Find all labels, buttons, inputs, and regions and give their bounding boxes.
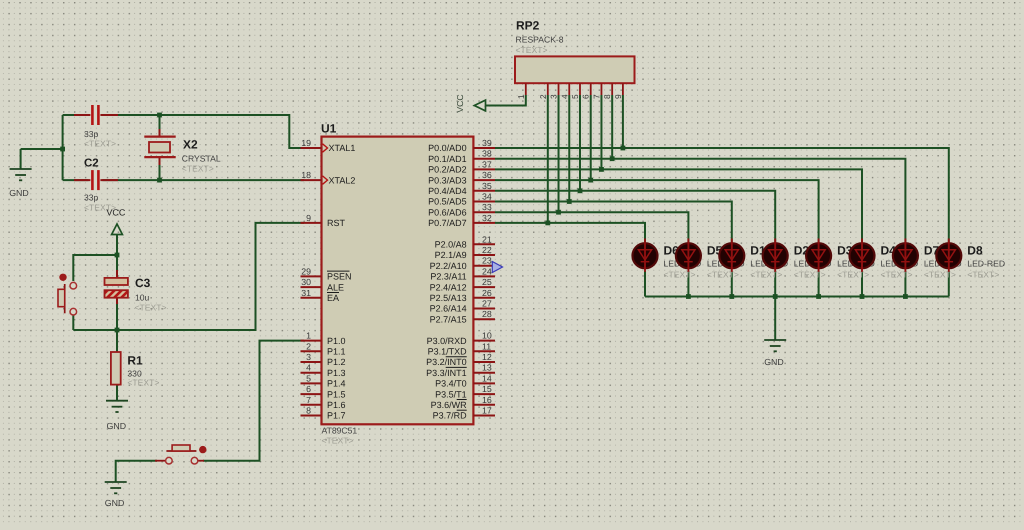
svg-text:P1.5: P1.5: [327, 389, 346, 399]
pin P2.4/A12 (25) right stub: [473, 286, 495, 288]
pin P0.4/AD4 (35) right stub: [473, 190, 495, 192]
wire: GND1 to capacitor column: [21, 148, 63, 150]
svg-text:P0.1/AD1: P0.1/AD1: [428, 154, 467, 164]
push button (vertical, reset): [64, 284, 66, 313]
pin EA (31) left stub: [301, 297, 322, 299]
overline PSEN: [327, 270, 350, 272]
svg-text:RP2: RP2: [516, 19, 540, 33]
svg-text:38: 38: [482, 149, 492, 159]
wire: bottom cap row to XTAL2: [63, 179, 304, 181]
pin P2.5/A13 (26) right stub: [473, 297, 495, 299]
svg-text:35: 35: [482, 181, 492, 191]
svg-text:P3.7/RD: P3.7/RD: [433, 411, 468, 421]
svg-text:19: 19: [301, 138, 311, 148]
wire: VCC1 drop to tee: [116, 235, 118, 255]
svg-text:P1.1: P1.1: [327, 347, 346, 357]
pin P1.7 (8) left stub: [301, 415, 322, 417]
svg-text:P0.5/AD5: P0.5/AD5: [428, 197, 467, 207]
LED D6: [633, 243, 658, 268]
wire: respack pin1 to VCC terminal: [486, 95, 526, 106]
power VCC2 (respack pin1, left-pointing): [474, 100, 485, 111]
ground GND1 (left of caps): [20, 149, 22, 169]
wire: respack pin 5 to P0.4 row: [579, 95, 581, 191]
svg-text:17: 17: [482, 406, 492, 416]
svg-text:P3.1/TXD: P3.1/TXD: [428, 347, 468, 357]
svg-text:C3: C3: [135, 276, 151, 290]
pin P0.0/AD0 (39) right stub: [473, 147, 495, 149]
junction: crystal top: [157, 113, 162, 118]
wire: respack pin 4 to P0.5 row: [568, 95, 570, 202]
pin XTAL1 (19) left stub: [301, 147, 322, 149]
pin P3.4/T0 (14) right stub: [473, 382, 495, 384]
junction: VCC/C3/button tee: [115, 253, 120, 258]
pin P0.3/AD3 (36) right stub: [473, 179, 495, 181]
svg-text:GND: GND: [9, 188, 29, 198]
wire: P0.0/AD0 row to LED column: [495, 148, 949, 244]
wire: P0.2/AD2 row to LED column: [495, 169, 862, 243]
overline WR: [457, 399, 467, 401]
svg-text:P0.3/AD3: P0.3/AD3: [428, 175, 467, 185]
respack pin 8 stub: [611, 83, 613, 95]
svg-text:3: 3: [549, 94, 559, 99]
pin P0.6/AD6 (33) right stub: [473, 211, 495, 213]
svg-text:37: 37: [482, 159, 492, 169]
svg-text:<TEXT>: <TEXT>: [127, 378, 159, 388]
svg-text:26: 26: [482, 288, 492, 298]
junction: LED bus joints: [686, 294, 691, 299]
svg-text:29: 29: [301, 266, 311, 276]
svg-text:P2.3/A11: P2.3/A11: [430, 272, 466, 282]
pin P3.7/RD (17) right stub: [473, 415, 495, 417]
svg-text:33p: 33p: [84, 193, 99, 203]
pin P3.3/INT1 (13) right stub: [473, 372, 495, 374]
junction: respack pin 5 on P0 row: [578, 188, 583, 193]
svg-text:5: 5: [306, 373, 311, 383]
wire: LED cathode drops to bus: [644, 271, 646, 297]
wire: capacitor column vertical: [62, 115, 64, 180]
wire: respack pin 7 to P0.2 row: [600, 95, 602, 169]
svg-text:14: 14: [482, 373, 492, 383]
svg-text:GND: GND: [107, 421, 127, 431]
pin P3.0/RXD (10) right stub: [473, 340, 495, 342]
svg-text:P2.2/A10: P2.2/A10: [430, 261, 467, 271]
overline INT1: [446, 366, 467, 368]
wire: P0.1/AD1 row to LED column: [495, 159, 905, 244]
svg-text:<TEXT>: <TEXT>: [516, 45, 548, 55]
svg-text:<TEXT>: <TEXT>: [837, 270, 869, 280]
svg-text:P3.5/T1: P3.5/T1: [435, 389, 467, 399]
svg-text:P3.6/WR: P3.6/WR: [431, 400, 468, 410]
svg-text:34: 34: [482, 192, 492, 202]
svg-text:32: 32: [482, 213, 492, 223]
respack pin 5 stub: [579, 83, 581, 95]
svg-text:33p: 33p: [84, 129, 99, 139]
svg-text:PSEN: PSEN: [327, 272, 352, 282]
svg-text:P2.4/A12: P2.4/A12: [430, 282, 467, 292]
pin P2.7/A15 (28) right stub: [473, 318, 495, 320]
svg-text:6: 6: [306, 384, 311, 394]
svg-text:<TEXT>: <TEXT>: [881, 270, 913, 280]
junction: respack pin 8 on P0 row: [610, 156, 615, 161]
svg-text:<TEXT>: <TEXT>: [182, 164, 214, 174]
ground GND3 (LED bus): [764, 339, 786, 341]
wire: crystal top lead: [159, 115, 161, 129]
svg-text:16: 16: [482, 395, 492, 405]
svg-text:10u: 10u: [135, 293, 150, 303]
svg-text:P0.7/AD7: P0.7/AD7: [428, 218, 467, 228]
pin P2.1/A9 (22) right stub: [473, 254, 495, 256]
svg-text:7: 7: [306, 395, 311, 405]
wire: P1.0 to button2: [203, 341, 304, 461]
wire: button1 bottom to RST net: [72, 316, 74, 331]
svg-text:P1.0: P1.0: [327, 336, 346, 346]
svg-text:9: 9: [613, 94, 623, 99]
ground GND2 (below R1): [106, 400, 128, 402]
wire: C3 top lead: [116, 255, 118, 270]
pin P3.5/T1 (15) right stub: [473, 393, 495, 395]
wire: P0.6/AD6 row to LED column: [495, 212, 688, 243]
junction: cap column / gnd tee: [60, 147, 65, 152]
svg-text:2: 2: [306, 341, 311, 351]
svg-text:18: 18: [301, 170, 311, 180]
capacitor C2 (bottom 33p): [88, 170, 102, 191]
svg-text:23: 23: [482, 256, 492, 266]
pin P2.0/A8 (21) right stub: [473, 243, 495, 245]
svg-text:P1.2: P1.2: [327, 357, 346, 367]
LED D3: [806, 243, 831, 268]
svg-text:AT89C51: AT89C51: [322, 426, 358, 436]
overline EA: [327, 292, 339, 294]
pin P1.0 (1) left stub: [301, 340, 322, 342]
LED D7: [893, 243, 918, 268]
pin RST (9) left stub: [301, 222, 322, 224]
pin P0.2/AD2 (37) right stub: [473, 168, 495, 170]
pin PSEN (29) left stub: [301, 275, 322, 277]
svg-text:P2.5/A13: P2.5/A13: [430, 293, 467, 303]
wire: P0.7/AD7 row to LED column: [495, 223, 645, 244]
pin P2.6/A14 (27) right stub: [473, 308, 495, 310]
overline INT0: [446, 356, 467, 358]
svg-text:P2.7/A15: P2.7/A15: [430, 314, 467, 324]
junction: respack pin 9 on P0 row: [621, 146, 626, 151]
svg-text:21: 21: [482, 234, 492, 244]
junction: respack pin 6 on P0 row: [588, 178, 593, 183]
svg-text:P0.0/AD0: P0.0/AD0: [428, 143, 467, 153]
svg-text:P2.0/A8: P2.0/A8: [435, 240, 467, 250]
resistor pack RP2 RESPACK-8: [515, 56, 635, 83]
wire: R1 top lead: [116, 330, 118, 352]
junction: respack pin 3 on P0 row: [556, 210, 561, 215]
svg-text:R1: R1: [127, 354, 143, 368]
pin P3.6/WR (16) right stub: [473, 404, 495, 406]
svg-text:36: 36: [482, 170, 492, 180]
svg-text:U1: U1: [321, 122, 337, 136]
svg-text:CRYSTAL: CRYSTAL: [182, 154, 221, 164]
pin P0.7/AD7 (32) right stub: [473, 222, 495, 224]
pin P2.3/A11 (24) right stub: [473, 275, 495, 277]
LED D5: [676, 243, 701, 268]
svg-text:P1.7: P1.7: [327, 411, 346, 421]
svg-text:24: 24: [482, 266, 492, 276]
pin P1.2 (3) left stub: [301, 361, 322, 363]
svg-text:<TEXT>: <TEXT>: [707, 270, 739, 280]
svg-text:12: 12: [482, 352, 492, 362]
svg-text:<TEXT>: <TEXT>: [794, 270, 826, 280]
wire: respack pin 9 to P0.0 row: [622, 95, 624, 148]
wire: respack pin 8 to P0.1 row: [611, 95, 613, 159]
cursor arrow marker (blue) at pin 23: [492, 262, 502, 273]
pin P0.5/AD5 (34) right stub: [473, 201, 495, 203]
svg-text:25: 25: [482, 277, 492, 287]
svg-text:C2: C2: [84, 158, 99, 170]
pin P3.2/INT0 (12) right stub: [473, 361, 495, 363]
respack pin 3 stub: [558, 83, 560, 95]
pin P1.6 (7) left stub: [301, 404, 322, 406]
svg-text:<TEXT>: <TEXT>: [924, 270, 956, 280]
svg-text:RESPACK-8: RESPACK-8: [516, 35, 564, 45]
wire: top cap row to XTAL1: [63, 115, 304, 148]
wire: RST net: [73, 223, 304, 330]
pin ALE (30) left stub: [301, 286, 322, 288]
svg-text:5: 5: [570, 94, 580, 99]
svg-text:4: 4: [559, 94, 569, 99]
svg-text:11: 11: [482, 341, 491, 351]
svg-text:<TEXT>: <TEXT>: [84, 203, 116, 213]
junction: respack pin 7 on P0 row: [599, 167, 604, 172]
capacitor C1 (top 33p): [88, 105, 102, 126]
respack pin 1 stub: [525, 83, 527, 95]
svg-text:ALE: ALE: [327, 282, 344, 292]
svg-text:15: 15: [482, 384, 492, 394]
pin P0.1/AD1 (38) right stub: [473, 158, 495, 160]
respack pin 6 stub: [590, 83, 592, 95]
svg-text:9: 9: [306, 213, 311, 223]
svg-text:P0.6/AD6: P0.6/AD6: [428, 207, 467, 217]
svg-text:8: 8: [602, 94, 612, 99]
svg-text:EA: EA: [327, 293, 339, 303]
svg-text:1: 1: [306, 331, 311, 341]
svg-text:RST: RST: [327, 218, 346, 228]
LED D1: [719, 243, 744, 268]
svg-text:XTAL1: XTAL1: [329, 143, 356, 153]
pin P3.1/TXD (11) right stub: [473, 350, 495, 352]
svg-text:8: 8: [306, 406, 311, 416]
svg-text:P3.0/RXD: P3.0/RXD: [427, 336, 468, 346]
svg-text:10: 10: [482, 331, 492, 341]
svg-text:P1.3: P1.3: [327, 368, 346, 378]
overline RD: [457, 409, 467, 411]
wire: P0.3/AD3 row to LED column: [495, 180, 819, 243]
junction: respack pin 4 on P0 row: [567, 199, 572, 204]
junction: C3/R1/RST tee: [115, 328, 120, 333]
pin P1.5 (6) left stub: [301, 393, 322, 395]
svg-text:7: 7: [591, 94, 601, 99]
svg-text:6: 6: [581, 94, 591, 99]
svg-text:33: 33: [482, 202, 492, 212]
ground GND4 (bottom left): [105, 481, 127, 483]
pin P1.4 (5) left stub: [301, 382, 322, 384]
pin XTAL2 (18) left stub: [301, 179, 322, 181]
wire: tee to button1 top: [73, 255, 117, 281]
svg-text:P2.1/A9: P2.1/A9: [435, 250, 467, 260]
svg-text:13: 13: [482, 363, 492, 373]
svg-text:X2: X2: [183, 138, 198, 152]
wire: P0.4/AD4 row to LED column: [495, 191, 775, 244]
svg-text:P1.6: P1.6: [327, 400, 346, 410]
svg-text:<TEXT>: <TEXT>: [84, 139, 116, 149]
junction: respack pin 2 on P0 row: [545, 221, 550, 226]
crystal X2: [159, 129, 161, 137]
svg-text:39: 39: [482, 138, 492, 148]
svg-text:GND: GND: [105, 498, 125, 508]
junction: crystal bottom: [157, 178, 162, 183]
svg-text:P3.2/INT0: P3.2/INT0: [426, 357, 467, 367]
svg-text:<TEXT>: <TEXT>: [967, 270, 999, 280]
wire: bus drop to GND3: [774, 297, 776, 341]
svg-text:P3.4/T0: P3.4/T0: [435, 379, 467, 389]
pin P2.2/A10 (23) right stub: [473, 265, 495, 267]
svg-text:22: 22: [482, 245, 492, 255]
svg-text:P1.4: P1.4: [327, 379, 346, 389]
svg-text:<TEXT>: <TEXT>: [322, 436, 354, 446]
respack pin 2 stub: [547, 83, 549, 95]
svg-text:VCC: VCC: [455, 94, 465, 112]
wire: C3 bottom lead to tee2: [116, 304, 118, 330]
svg-text:31: 31: [301, 288, 311, 298]
svg-text:LED-RED: LED-RED: [967, 259, 1005, 269]
svg-text:<TEXT>: <TEXT>: [750, 270, 782, 280]
wire: crystal bottom lead: [159, 165, 161, 180]
svg-text:<TEXT>: <TEXT>: [135, 303, 167, 313]
LED D4: [850, 243, 875, 268]
wire: respack pin 6 to P0.3 row: [590, 95, 592, 180]
op-amp U1 body (AT89C51 MCU): [322, 137, 474, 425]
svg-text:2: 2: [538, 94, 548, 99]
svg-text:<TEXT>: <TEXT>: [664, 270, 696, 280]
respack pin 9 stub: [622, 83, 624, 95]
wire: P0.5/AD5 row to LED column: [495, 202, 732, 244]
wire: respack pin 2 to P0.7 row: [547, 95, 549, 223]
svg-text:27: 27: [482, 299, 492, 309]
wire: respack pin 3 to P0.6 row: [558, 95, 560, 212]
svg-text:1: 1: [516, 94, 526, 99]
respack pin 7 stub: [600, 83, 602, 95]
svg-text:4: 4: [306, 363, 311, 373]
svg-text:P2.6/A14: P2.6/A14: [430, 304, 467, 314]
svg-text:30: 30: [301, 277, 311, 287]
wire: R1 bottom lead to GND2: [116, 385, 118, 401]
respack pin 4 stub: [568, 83, 570, 95]
resistor R1 330: [111, 352, 121, 385]
pin P1.1 (2) left stub: [301, 350, 322, 352]
pin P1.3 (4) left stub: [301, 372, 322, 374]
wire: button2 left to GND4: [116, 461, 157, 482]
svg-text:28: 28: [482, 309, 492, 319]
wire: LED ground bus: [645, 296, 949, 298]
push button (horizontal, P1.0): [155, 460, 166, 462]
capacitor C3 10u (electrolytic): [116, 270, 118, 277]
svg-text:P3.3/INT1: P3.3/INT1: [426, 368, 467, 378]
svg-text:P0.2/AD2: P0.2/AD2: [428, 165, 467, 175]
LED D2: [763, 243, 788, 268]
svg-text:GND: GND: [764, 357, 784, 367]
svg-text:P0.4/AD4: P0.4/AD4: [428, 186, 467, 196]
svg-text:XTAL2: XTAL2: [329, 175, 356, 185]
svg-text:D8: D8: [967, 244, 983, 258]
svg-text:3: 3: [306, 352, 311, 362]
LED D8: [936, 243, 961, 268]
